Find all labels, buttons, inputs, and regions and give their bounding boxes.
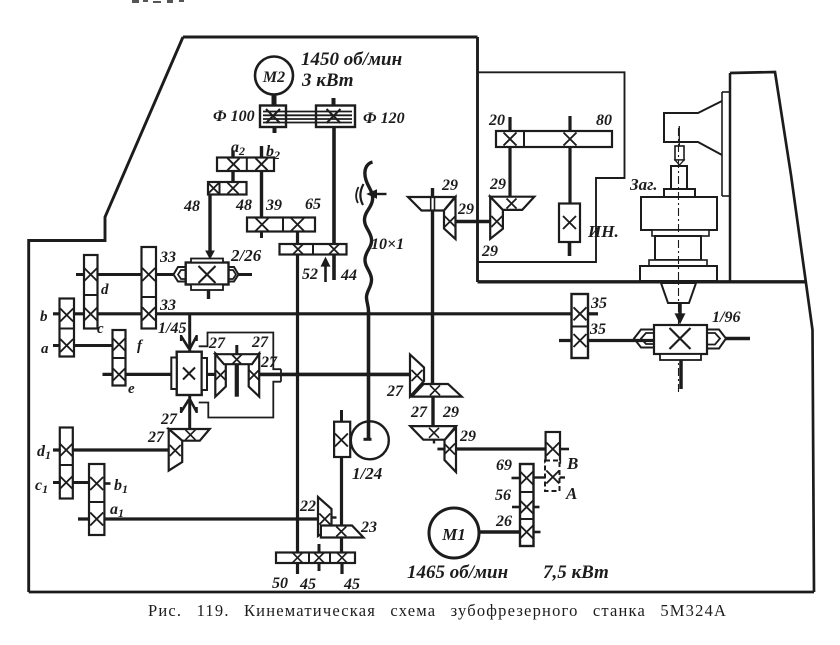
- 2/26 left bearing chevrons: [174, 267, 186, 282]
- table spindle cone below bed: [661, 283, 696, 303]
- svg-text:29: 29: [442, 404, 459, 421]
- vertical shaft gear65 to gear50 x=297.5: [296, 232, 299, 553]
- svg-text:7,5 кВт: 7,5 кВт: [543, 562, 609, 583]
- engagement arrow: [375, 193, 387, 195]
- svg-text:29: 29: [481, 243, 498, 260]
- column guideway strip: [722, 91, 730, 93]
- small stub below trapezoid: [433, 440, 435, 444]
- tailstock center pin: [678, 126, 680, 146]
- bevel 23 trapezoid: [321, 526, 364, 538]
- differential top bevel trapezoid: [215, 354, 259, 364]
- shaft II long horizontal y=314: [53, 312, 598, 315]
- svg-text:22: 22: [299, 498, 316, 515]
- vertical screw shaft into disc: [367, 312, 371, 439]
- svg-text:39: 39: [265, 197, 282, 214]
- workpiece center line (dash-dot): [678, 128, 680, 392]
- bevel 22 flag on shaft a1: [318, 497, 332, 536]
- bevel V above feed box: [181, 336, 189, 349]
- table shaft bottom stub: [679, 360, 683, 389]
- bevel 27 trapezoid on vertical shaft: [169, 429, 210, 441]
- svg-text:52: 52: [302, 266, 318, 283]
- svg-text:33: 33: [159, 249, 176, 266]
- a2 b2 shaft stubs: [231, 151, 234, 158]
- svg-text:29: 29: [459, 428, 476, 445]
- vertical worm shaft x=341.5 upper stub: [340, 410, 343, 422]
- gear pair d1 c1 column: [60, 428, 73, 499]
- gear pair d c column: [84, 255, 98, 329]
- svg-text:33: 33: [159, 297, 176, 314]
- svg-text:27: 27: [410, 404, 428, 421]
- dashed link gear69 to gear A: [534, 476, 546, 478]
- svg-text:a: a: [41, 341, 49, 357]
- workpiece clamp flange: [664, 189, 695, 197]
- induction unit IN box: [559, 204, 580, 243]
- vertical shaft from pulley 120: [332, 127, 336, 280]
- 2/26 right shaft stub: [239, 273, 253, 276]
- svg-text:1/45: 1/45: [158, 320, 186, 337]
- shaft d1 horizontal y=450: [53, 448, 169, 451]
- feed arrow up: [324, 264, 327, 282]
- shaft I horizontal y=274.5: [76, 273, 174, 276]
- svg-text:1/96: 1/96: [712, 309, 740, 326]
- svg-text:23: 23: [360, 519, 377, 536]
- workpiece arbor: [671, 166, 687, 189]
- svg-text:45: 45: [343, 576, 360, 593]
- M2 shaft stub: [272, 95, 277, 107]
- gear pair b a column: [60, 299, 75, 357]
- svg-text:27: 27: [147, 429, 165, 446]
- svg-text:26: 26: [495, 513, 512, 530]
- differential right bevel flag: [249, 353, 260, 396]
- svg-text:48: 48: [235, 197, 252, 214]
- top edge cropped text fragment: [132, 0, 184, 3]
- worm gearbox 2/26: [186, 263, 229, 285]
- gear69 shaft stub: [512, 477, 521, 480]
- svg-text:Ф 100: Ф 100: [213, 108, 255, 125]
- change gear B: [546, 432, 560, 463]
- gear pair 39 65: [247, 218, 315, 232]
- vertical bevel shaft x=432.5: [431, 188, 434, 384]
- svg-text:29: 29: [441, 177, 458, 194]
- gear pair 35 35: [572, 294, 589, 358]
- shaft 48 down to worm 2/26 with arrow: [208, 195, 211, 252]
- change gear A dashed: [545, 461, 560, 492]
- lead screw 10x1 wavy symbol: [364, 162, 372, 312]
- svg-text:35: 35: [589, 321, 606, 338]
- svg-text:29: 29: [457, 201, 474, 218]
- svg-text:e: e: [128, 381, 135, 397]
- column left edge: [729, 73, 732, 282]
- gear56 shaft stubs: [512, 506, 520, 509]
- vertical worm shaft x=341.5 to gear row: [340, 457, 343, 553]
- gear row 50 45 45: [276, 553, 355, 564]
- svg-text:10×1: 10×1: [371, 236, 404, 253]
- svg-text:1/24: 1/24: [352, 464, 382, 483]
- svg-text:1465 об/мин: 1465 об/мин: [407, 562, 508, 583]
- bevel 29 flag right: [444, 197, 456, 239]
- gear pair 52 44: [280, 244, 347, 255]
- differential housing thin outline: [199, 333, 281, 370]
- pulley D120: [316, 106, 355, 128]
- feed worm box 1/45: [177, 352, 202, 395]
- svg-text:М1: М1: [441, 525, 466, 544]
- gear pair a2 b2: [217, 158, 274, 172]
- counter-support bracket: [664, 101, 722, 155]
- svg-text:50: 50: [272, 575, 288, 592]
- main feed shaft right segment: [259, 373, 410, 377]
- differential output stub below IN box: [568, 242, 572, 256]
- bevel 29 trapezoid lower: [410, 426, 456, 440]
- small stub left of flag: [437, 448, 444, 451]
- svg-text:c: c: [97, 321, 104, 337]
- gear pair b1 a1 column: [89, 464, 104, 535]
- gear80 shaft vertical x=570: [568, 116, 571, 131]
- svg-text:В: В: [566, 454, 578, 473]
- svg-text:29: 29: [489, 176, 506, 193]
- belt lines: [263, 111, 352, 113]
- table step lower: [649, 260, 707, 266]
- gear pair 33 33 column: [142, 247, 157, 329]
- gear20 shaft vertical x=510: [508, 117, 511, 131]
- machine housing outline top-left: [183, 36, 478, 39]
- feed direction arrow onto worm box: [678, 303, 682, 317]
- worm gearbox 1/96 bottom flange: [660, 354, 701, 360]
- svg-text:1450 об/мин: 1450 об/мин: [301, 49, 402, 70]
- workpiece table top block: [641, 197, 717, 230]
- shaft a1 long horizontal: [78, 517, 318, 520]
- svg-text:ИН.: ИН.: [587, 222, 619, 241]
- pulley stubs: [332, 98, 336, 106]
- shaft e horizontal into feed box: [103, 373, 172, 376]
- table step upper: [652, 230, 709, 236]
- 2/26 bottom stub: [207, 290, 210, 299]
- svg-text:М2: М2: [262, 69, 285, 86]
- bevel 29 flag left of pair2: [490, 197, 503, 239]
- outline bottom edge: [29, 591, 814, 594]
- svg-text:69: 69: [496, 457, 512, 474]
- gear stack 69 56 26: [520, 464, 534, 546]
- motor M2: [255, 57, 293, 95]
- worm gearbox right bearing chevrons: [707, 330, 726, 349]
- pulley D100: [260, 106, 286, 128]
- bevel 29 trapezoid pair2: [490, 197, 534, 210]
- shaft c1-b1 horizontal: [53, 481, 89, 484]
- table column middle: [655, 236, 701, 260]
- svg-text:27: 27: [260, 354, 278, 371]
- svg-text:48: 48: [183, 198, 200, 215]
- svg-text:Ф 120: Ф 120: [363, 110, 405, 127]
- 2/26 right bearing chevrons: [229, 267, 239, 282]
- bevel trapezoid on vertical shaft x=432: [408, 197, 455, 211]
- worm shaft right stub: [726, 337, 750, 341]
- outline right edge and column slant: [730, 72, 814, 592]
- gear pair f e column: [113, 330, 126, 386]
- worm 1/96 X mark: [670, 328, 691, 349]
- bevel V below feed box: [181, 400, 189, 413]
- screw engagement arcs: [360, 184, 363, 205]
- motor M1 shaft: [479, 530, 520, 534]
- svg-text:27: 27: [208, 335, 226, 352]
- svg-text:27: 27: [160, 411, 178, 428]
- shaft a-f horizontal y=345.5: [53, 344, 113, 347]
- worm gearbox 1/96 housing: [654, 325, 707, 354]
- shaft through trapezoid double line: [430, 198, 432, 210]
- housing right vertical x=477: [476, 37, 479, 282]
- differential housing box outline: [478, 72, 625, 262]
- outline left slant: [29, 37, 183, 592]
- shaft b2 down to gear39: [260, 171, 263, 218]
- bevel 27 flag on shaft d1: [169, 429, 183, 471]
- svg-text:35: 35: [590, 295, 607, 312]
- shaft y=449 to gear B: [456, 447, 546, 450]
- table base: [640, 266, 717, 281]
- worm 1/24 rect: [334, 422, 350, 457]
- svg-text:Заг.: Заг.: [629, 175, 657, 194]
- svg-text:Рис. 119. Кинематическая схема: Рис. 119. Кинематическая схема зубофрезе…: [148, 601, 727, 620]
- svg-text:80: 80: [596, 112, 612, 129]
- vertical shaft feed box x=189.7: [188, 315, 191, 352]
- svg-text:65: 65: [305, 196, 321, 213]
- svg-text:44: 44: [340, 267, 357, 284]
- motor M1: [429, 508, 479, 558]
- svg-text:3 кВт: 3 кВт: [301, 70, 354, 91]
- bevel chain shaft y=221.5: [456, 220, 491, 223]
- gear pair 20 80: [496, 131, 612, 147]
- worm wheel disc 1/24: [351, 421, 389, 459]
- svg-text:А: А: [565, 484, 577, 503]
- svg-text:b: b: [40, 309, 48, 325]
- differential carrier bar: [235, 364, 239, 397]
- svg-text:20: 20: [488, 112, 505, 129]
- svg-text:2/26: 2/26: [230, 246, 262, 265]
- differential left bevel flag: [215, 353, 226, 396]
- gear pair 48 48: [208, 182, 247, 195]
- svg-text:45: 45: [299, 576, 316, 593]
- svg-text:d: d: [101, 282, 109, 298]
- svg-text:56: 56: [495, 487, 511, 504]
- bevel 27 inverted trapezoid: [412, 384, 462, 397]
- bevel 27 flag on main feed shaft: [410, 355, 424, 397]
- svg-text:27: 27: [386, 383, 404, 400]
- shaft y=340.5 to worm box 1/96: [559, 339, 654, 342]
- gear row stubs: [296, 563, 299, 574]
- bevel 29 flag to horizontal shaft: [445, 428, 457, 473]
- main feed shaft middle segment: [207, 373, 215, 376]
- worm gearbox left bearing chevrons: [634, 330, 654, 348]
- svg-text:27: 27: [251, 334, 269, 351]
- machine bed line: [478, 280, 808, 283]
